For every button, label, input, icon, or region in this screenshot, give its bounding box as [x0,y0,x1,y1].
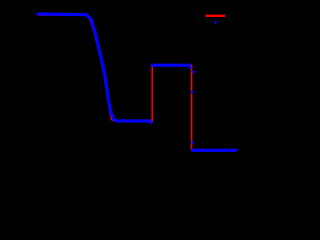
blue numerical-solution trace: bottom plateau [193,149,236,152]
blue numerical-solution trace: top segment and descent [38,14,150,121]
blue marker on transition, middle [190,91,194,94]
legend blue marker sample [214,21,218,24]
blue numerical-solution trace: middle plateau [152,64,189,67]
blue marker at end of middle plateau [188,67,192,70]
blue marker on transition, upper [191,71,195,74]
legend red line sample [206,15,226,17]
blue marker on transition, lower [190,142,194,145]
blue marker at end of first low plateau [149,122,154,125]
blue marker at end of bottom plateau [236,149,239,151]
red exact-solution curve [38,15,236,151]
